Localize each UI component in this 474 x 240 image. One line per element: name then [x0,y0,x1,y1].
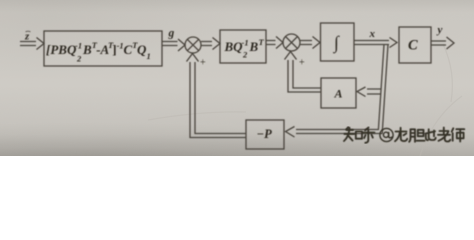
svg-text:T: T [259,37,265,47]
block U4: C [399,27,431,63]
svg-text:C: C [124,42,133,57]
svg-text:2: 2 [242,50,248,60]
watermark char 1 zhi [344,127,362,141]
wire: branch from x line going down (vertical pair) then left into -P [296,45,388,134]
svg-text:BQ: BQ [224,39,244,54]
svg-text:2: 2 [76,54,82,64]
block U3: integrator [321,23,355,61]
svg-text:+: + [299,58,305,69]
watermark char 3 at-sign [380,128,393,141]
block U5: A [321,78,356,108]
watermark char 6 ye [426,129,436,140]
svg-text:+: + [200,58,206,69]
svg-text:[PBQ: [PBQ [46,42,77,57]
svg-text:x: x [369,28,376,40]
watermark char 5 dan [409,129,424,142]
watermark char 7 lao [438,128,450,142]
summing junction S2 (circle with X) [283,34,300,51]
svg-text:B: B [82,42,92,57]
wire: A output going left then up into junction2 (+) [288,60,321,92]
wire: block1 to summing junction 1 with arrowhead [162,42,178,46]
wire: integrator output, x line to C block [354,41,389,45]
summing junction S1 (circle with X) [185,37,201,53]
svg-text:-1: -1 [75,41,82,51]
svg-text:g: g [168,28,175,40]
BQ block value text [224,37,265,60]
block U1: [PBQ2^-1 B^T - A^T]^-1 C^T Q1 [44,31,162,66]
paper grain [0,0,474,156]
faint pencil arcs on paper [148,44,462,156]
wire: tap to A block input (from vertical branch, arrow into A right side) [367,89,381,94]
wire: BQ block to summing junction 2 [266,41,276,45]
svg-text:B: B [249,39,259,54]
svg-text:z: z [24,31,30,43]
svg-text:Q: Q [137,42,147,57]
wire: output y double-line arrow [431,41,446,45]
watermark char 4 long [395,128,407,141]
paper background [0,0,474,156]
wire: junction2 to integrator [300,41,312,45]
svg-text:−P: −P [257,127,273,141]
wire: junction1 to BQ block [201,42,212,46]
wire: input z double-line arrow into block 1 [20,42,36,46]
watermark char 2 hu [363,128,375,143]
wire: -P output going left then up into junction1 (+) [190,62,246,138]
watermark char 8 shi [452,128,465,141]
svg-text:y: y [436,24,443,36]
svg-text:A: A [334,87,343,101]
block U2: B Q2^-1 B^T [220,30,266,63]
block1 value text [46,40,151,64]
svg-text:1: 1 [147,51,151,61]
svg-text:-1: -1 [242,38,249,48]
block U6: -P [246,120,284,149]
watermark: 知乎 @龙胆也老师 (drawn strokes) [344,127,464,143]
svg-text:C: C [408,38,418,54]
